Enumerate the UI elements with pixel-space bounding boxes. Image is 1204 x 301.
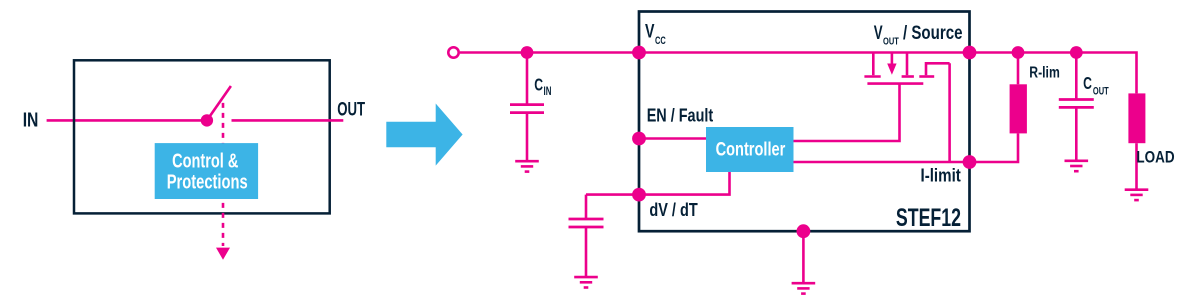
input terminal	[448, 47, 458, 57]
switch pivot dot	[201, 114, 213, 126]
ground for C_OUT	[1065, 161, 1089, 171]
sense terminal	[919, 75, 934, 78]
capacitor C_dVdT lead top	[585, 195, 588, 219]
control block	[155, 143, 258, 199]
svg-text:C: C	[534, 75, 543, 95]
capacitor C_OUT lead top	[1075, 53, 1078, 100]
resistor R-lim lead top	[1017, 53, 1020, 85]
controller block	[706, 127, 794, 172]
capacitor C_IN lead bottom	[526, 113, 529, 162]
MOSFET Q1	[864, 53, 949, 84]
enclosure box	[74, 60, 330, 213]
load lead bottom	[1135, 143, 1138, 190]
wire controller to dV/dT pin	[586, 172, 730, 195]
wire EN to controller	[639, 137, 706, 140]
ground for GND pin	[792, 283, 816, 293]
capacitor C_IN plates	[510, 103, 544, 106]
svg-text:I-limit: I-limit	[921, 165, 961, 185]
svg-text:OUT: OUT	[883, 37, 899, 48]
junction dot R-lim tap	[1012, 46, 1025, 59]
svg-text:R-lim: R-lim	[1029, 64, 1060, 81]
ground for C_IN	[515, 161, 539, 171]
body arrow	[891, 53, 894, 66]
drain terminal	[872, 53, 875, 76]
wire GND pin	[802, 231, 805, 283]
svg-text:dV / dT: dV / dT	[649, 200, 697, 220]
pin dot Vout	[963, 46, 977, 60]
ground for load	[1125, 190, 1149, 200]
capacitor C_OUT lead bottom	[1075, 107, 1078, 160]
gate bar	[867, 82, 923, 85]
wire Vcc rail	[460, 53, 1137, 94]
svg-text:V: V	[645, 22, 655, 43]
svg-text:OUT: OUT	[337, 100, 365, 121]
switch lever	[207, 86, 231, 120]
svg-text:IN: IN	[544, 86, 552, 98]
pin dot Vcc	[632, 46, 646, 60]
arrowhead of dashed control line	[216, 248, 230, 260]
svg-text:/ Source: / Source	[903, 23, 963, 44]
svg-text:EN / Fault: EN / Fault	[647, 105, 714, 125]
dashed control line	[222, 103, 225, 246]
STEF12 device box	[639, 12, 970, 232]
svg-text:Protections: Protections	[167, 172, 248, 194]
svg-text:IN: IN	[23, 108, 39, 131]
pin dot GND	[797, 224, 811, 238]
capacitor C_dVdT lead bottom	[585, 227, 588, 277]
pin dot I-limit	[963, 155, 977, 169]
resistor R-lim body	[1010, 84, 1027, 133]
capacitor C_dVdT plates	[569, 218, 604, 221]
ground for C_dVdT	[574, 277, 598, 287]
wire controller to gate	[794, 85, 900, 142]
junction dot C_IN tap	[521, 46, 534, 59]
svg-text:V: V	[874, 23, 883, 44]
pin dot dV/dT	[632, 188, 646, 202]
svg-text:C: C	[1083, 73, 1092, 93]
wire sense to I-limit	[948, 63, 951, 162]
svg-text:STEF12: STEF12	[896, 204, 961, 232]
wire controller to I-limit and R-lim	[794, 133, 1019, 162]
capacitor C_OUT plates	[1059, 98, 1094, 101]
load body	[1128, 93, 1145, 143]
wire IN input	[47, 119, 207, 122]
junction dot C_OUT tap	[1070, 46, 1083, 59]
svg-text:Controller: Controller	[716, 140, 786, 161]
svg-text:CC: CC	[655, 35, 666, 47]
pin dot EN/Fault	[632, 132, 646, 146]
svg-text:LOAD: LOAD	[1136, 148, 1174, 167]
wire OUT side	[232, 119, 344, 122]
capacitor C_IN lead top	[526, 53, 529, 105]
svg-text:OUT: OUT	[1093, 86, 1109, 98]
big cyan arrow	[386, 104, 462, 166]
svg-text:Control &: Control &	[172, 151, 238, 173]
source terminal	[906, 53, 909, 76]
